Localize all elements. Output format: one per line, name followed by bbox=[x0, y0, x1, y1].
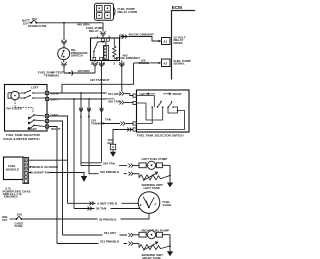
left fuel pump bbox=[139, 157, 170, 176]
wire 120 into switch pin3 bbox=[90, 118, 133, 125]
svg-text:TERMINAL: TERMINAL bbox=[44, 73, 60, 77]
wire p1 RIGHT to switch 521 GRY bbox=[49, 91, 133, 95]
sending unit right tank bbox=[139, 242, 170, 259]
splice TAN vertical bbox=[81, 84, 111, 163]
fuse F1 ECM-B 10A with BATT feed bbox=[22, 17, 47, 28]
svg-text:SIGNAL: SIGNAL bbox=[174, 62, 186, 66]
oil pressure switch bbox=[58, 48, 88, 60]
module caption bbox=[3, 187, 31, 199]
right fuel pump row 521 GRY bbox=[63, 231, 140, 237]
svg-text:E: E bbox=[140, 203, 142, 207]
wire 39 PNK/BLK to gauge bbox=[23, 213, 149, 221]
test terminal label bbox=[38, 71, 64, 78]
wire p3 vertical to right pump row bbox=[49, 116, 68, 203]
selector valve motor M bbox=[8, 91, 19, 99]
svg-text:120 TAN/WHT: 120 TAN/WHT bbox=[90, 78, 110, 82]
svg-text:TAN/WHT: TAN/WHT bbox=[139, 61, 153, 65]
svg-text:12V: 12V bbox=[2, 218, 7, 222]
valve connector pins bbox=[45, 91, 60, 131]
svg-text:DRIVE: DRIVE bbox=[174, 41, 183, 45]
svg-text:FUEL TANK SELECTOR SWITCH: FUEL TANK SELECTOR SWITCH bbox=[137, 134, 184, 138]
svg-text:RH TOLER: RH TOLER bbox=[7, 107, 23, 111]
fuse F2 GAGE 20A with IGN feed bbox=[2, 213, 23, 229]
svg-text:GAGE: GAGE bbox=[163, 203, 172, 207]
svg-text:F: F bbox=[155, 203, 157, 207]
150 BLK ground bbox=[108, 138, 117, 157]
svg-text:465 DK GRN/WHT: 465 DK GRN/WHT bbox=[129, 33, 155, 37]
right sender row bbox=[57, 240, 139, 246]
ground left tank bbox=[167, 175, 173, 188]
wire 120 TAN-WHT to ECM A2 bbox=[134, 58, 162, 65]
valve switch contacts upper bbox=[19, 90, 45, 99]
connector splice below oil pressure switch bbox=[61, 60, 66, 73]
fuel module box bbox=[4, 157, 29, 184]
fuel gauge bbox=[138, 192, 171, 214]
selector switch internal wires bbox=[137, 96, 185, 130]
wire H1 120 TAN/WHT horizontal bbox=[62, 63, 134, 93]
relay lower right label 465 bbox=[119, 54, 140, 94]
svg-text:TAN: TAN bbox=[105, 118, 111, 122]
wire p4 vertical to gauge row bbox=[49, 121, 63, 235]
svg-text:FUSE: FUSE bbox=[15, 224, 23, 228]
svg-text:A1: A1 bbox=[163, 40, 167, 44]
splice A drop bbox=[79, 93, 83, 166]
selector switch pins bbox=[133, 94, 136, 131]
right fuel pump bbox=[139, 229, 170, 246]
svg-text:20A: 20A bbox=[17, 213, 23, 217]
ground right tank bbox=[167, 245, 173, 256]
svg-text:520 PNK/BLK: 520 PNK/BLK bbox=[100, 170, 120, 174]
wire 30 TAN to gauge bbox=[74, 206, 140, 211]
svg-text:465 RED: 465 RED bbox=[78, 69, 91, 73]
wire 465 DK GRN-WHT from relay to ECM A1 bbox=[121, 33, 162, 43]
svg-text:A INST GRD B: A INST GRD B bbox=[97, 201, 118, 205]
svg-text:LEFT TANK: LEFT TANK bbox=[144, 186, 161, 190]
splice B drop bbox=[87, 99, 91, 174]
fuel pump test terminal and RED wire to relay bbox=[64, 61, 98, 76]
wire module BLK/WHT 450 to ground bbox=[29, 171, 88, 182]
svg-text:LEFT FUEL PUMP: LEFT FUEL PUMP bbox=[142, 157, 168, 161]
fuel pump relay K1 bbox=[86, 26, 123, 66]
svg-text:ECM/B FUSE: ECM/B FUSE bbox=[28, 24, 47, 28]
ECM boundary bbox=[172, 5, 196, 80]
svg-text:RELAY: RELAY bbox=[89, 29, 99, 33]
valve switch contacts lower bbox=[28, 114, 46, 131]
sending unit left tank bbox=[139, 172, 170, 190]
svg-text:DK GRN/WHT: DK GRN/WHT bbox=[121, 56, 141, 60]
fuel tank selector switch box bbox=[137, 90, 190, 132]
svg-text:RIGHT: RIGHT bbox=[51, 127, 61, 131]
node junction to oil pressure switch branch bbox=[63, 22, 65, 40]
svg-text:10A: 10A bbox=[32, 17, 38, 21]
left sender row bbox=[89, 170, 139, 176]
svg-text:ENGINES: ENGINES bbox=[4, 195, 18, 199]
svg-text:30 TAN: 30 TAN bbox=[96, 207, 106, 211]
svg-text:MODULE: MODULE bbox=[6, 168, 19, 172]
switch caption bbox=[137, 134, 184, 138]
svg-text:TAN/WHT: TAN/WHT bbox=[91, 121, 105, 125]
svg-text:521 PNK/BLK: 521 PNK/BLK bbox=[100, 240, 120, 244]
wire module top pin to p3 net bbox=[29, 159, 68, 161]
svg-text:RIGHT: RIGHT bbox=[173, 92, 183, 96]
left fuel pump row 520 TAN bbox=[81, 162, 139, 168]
connector splice above oil pressure switch bbox=[61, 40, 66, 48]
valve dashed mech link bbox=[7, 100, 34, 113]
svg-text:521 GRY: 521 GRY bbox=[104, 231, 116, 235]
wire 30 TAN drop from p2 node bbox=[73, 99, 75, 209]
wire A INST to gauge bbox=[68, 200, 139, 205]
svg-text:520 TAN: 520 TAN bbox=[108, 100, 120, 104]
selector switch contacts bbox=[151, 100, 173, 108]
svg-text:ECM: ECM bbox=[172, 5, 182, 10]
relay pin B drop to H1 bbox=[99, 61, 104, 85]
wire 150 into switch pin4 bbox=[113, 128, 133, 145]
svg-text:PNK/BLK 39: PNK/BLK 39 bbox=[30, 165, 48, 169]
fuel pump relay connector (pictorial) bbox=[95, 3, 138, 20]
svg-text:A2: A2 bbox=[163, 61, 167, 65]
fuel tank selector valve box bbox=[5, 85, 48, 132]
svg-text:RIGHT: RIGHT bbox=[28, 127, 38, 131]
svg-text:BLK/WHT 450: BLK/WHT 450 bbox=[30, 171, 50, 175]
wire p5 vertical 39 net to right sender row bbox=[49, 127, 57, 244]
svg-text:SWITCH: SWITCH bbox=[71, 54, 83, 58]
ECM pin A1 bbox=[162, 36, 186, 45]
svg-text:LEFT: LEFT bbox=[31, 86, 39, 90]
svg-text:39 PNK/BLK: 39 PNK/BLK bbox=[99, 217, 117, 221]
svg-text:520 TAN: 520 TAN bbox=[103, 162, 115, 166]
wire from fuse to relay (440 ORN) bbox=[38, 22, 104, 31]
svg-text:VALVE & METER SWITCH: VALVE & METER SWITCH bbox=[3, 137, 40, 141]
wire p2 LEFT to switch 520 TAN bbox=[49, 98, 133, 104]
wire module PNK/BLK 39 bbox=[29, 165, 58, 169]
ECM pin A2 bbox=[162, 59, 191, 67]
svg-text:RELAY CONN: RELAY CONN bbox=[118, 10, 138, 14]
valve caption bbox=[3, 133, 41, 141]
svg-text:521 GRY: 521 GRY bbox=[108, 92, 120, 96]
splice into relay top bbox=[100, 31, 105, 38]
